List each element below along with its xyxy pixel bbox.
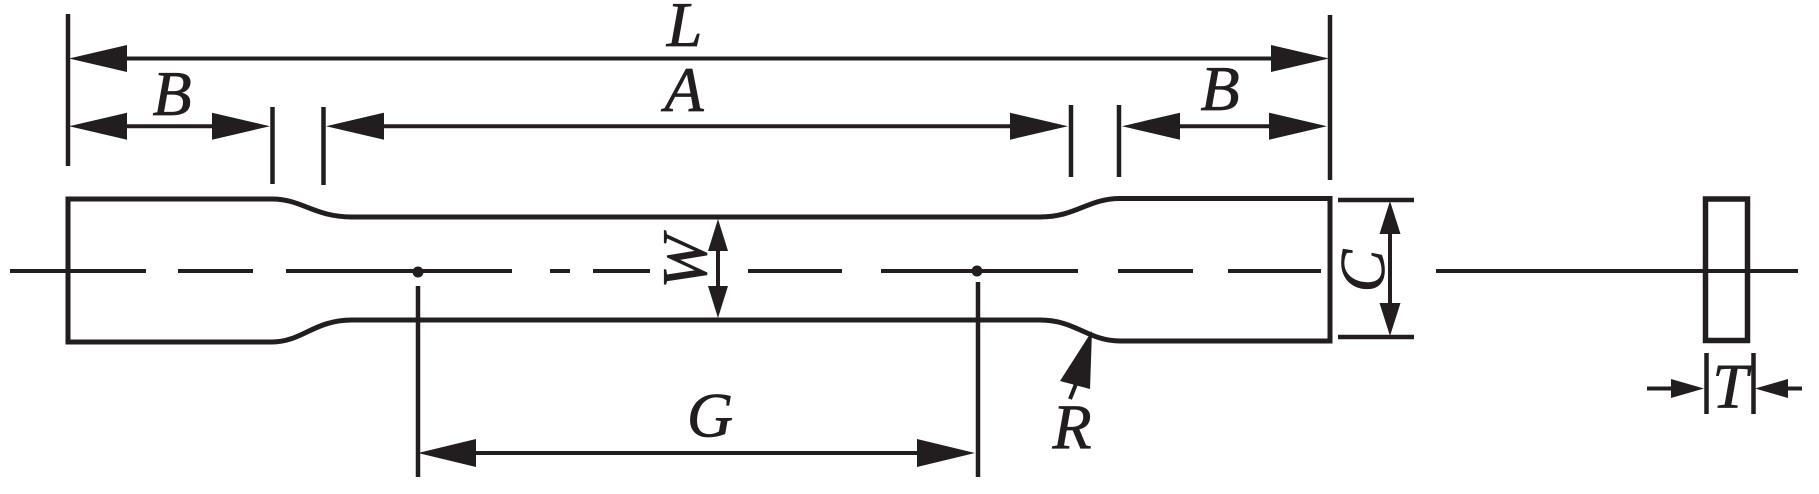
svg-text:B: B [152,58,191,129]
svg-text:A: A [660,54,704,125]
svg-text:R: R [1051,392,1091,463]
svg-text:G: G [687,380,733,451]
svg-text:T: T [1712,351,1752,422]
svg-text:C: C [1327,248,1398,292]
svg-text:W: W [649,230,720,289]
svg-text:L: L [666,0,703,60]
svg-text:B: B [1200,53,1239,124]
